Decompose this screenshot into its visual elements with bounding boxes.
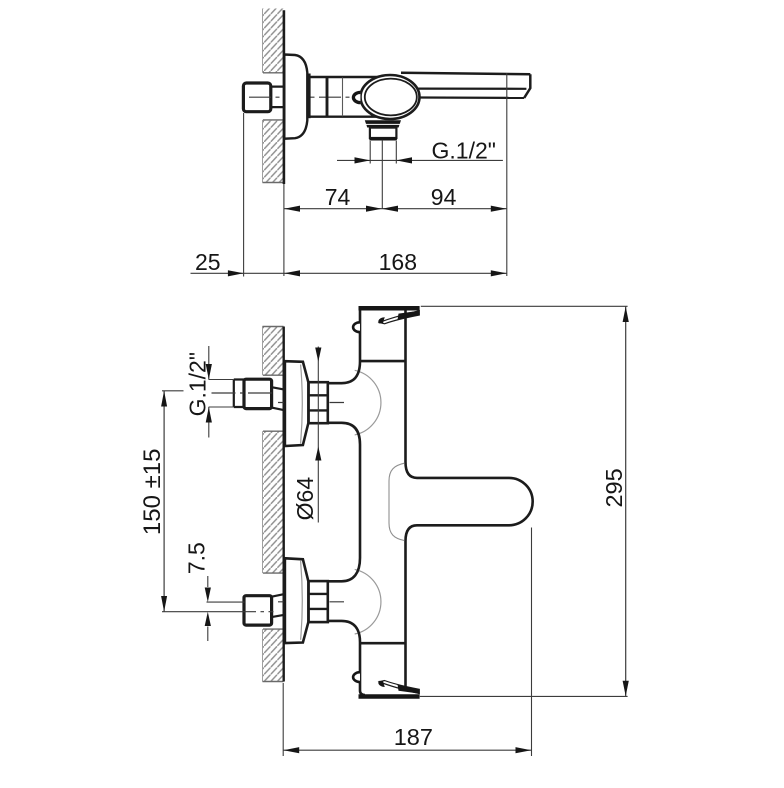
wall hole edges	[263, 73, 284, 183]
spout root contour	[389, 463, 404, 540]
cartridge cap outer oval	[361, 75, 420, 119]
bottom lever bar	[359, 694, 420, 699]
arrow 168 right	[491, 270, 507, 276]
wall left boundary	[262, 9, 264, 183]
body right outline with spout	[406, 310, 533, 689]
bottom hub circle	[355, 569, 381, 634]
svg-text:G.1/2": G.1/2"	[432, 137, 496, 163]
cylinder thin joint	[342, 78, 344, 117]
7.5 upper extension (union centerline)	[207, 601, 245, 603]
cylinder joint ring	[326, 77, 329, 117]
top union centerline	[278, 402, 344, 404]
bottom union nut	[309, 581, 328, 622]
svg-text:7.5: 7.5	[183, 542, 209, 574]
G.1/2 leader line	[337, 159, 503, 161]
top hub circle	[355, 370, 381, 435]
top inlet stub	[234, 380, 244, 408]
295 top extension	[421, 305, 628, 307]
svg-text:168: 168	[379, 249, 417, 275]
arrow at spout end	[491, 206, 507, 212]
187 right extension (spout tip)	[531, 528, 533, 757]
wall hatch segment A	[263, 327, 284, 376]
top inlet eccentric neck	[272, 387, 284, 410]
dimension line 25/168	[191, 272, 507, 274]
body cylinder	[309, 77, 379, 117]
wall hatch lower segment	[263, 120, 284, 183]
G.1/2 arrow left	[355, 157, 371, 163]
thread extension lines	[370, 141, 396, 164]
wall hole edges	[263, 327, 284, 682]
dimension line 74/94	[284, 208, 507, 210]
wall surface extension line down to dims	[283, 184, 285, 276]
spout bottom line	[420, 96, 525, 99]
G.1/2 extension lines	[209, 380, 234, 408]
295 dimension line	[625, 306, 627, 696]
cap joint line bottom	[359, 642, 405, 645]
outlet thread bottom edge	[369, 137, 397, 140]
inlet neck	[271, 87, 284, 108]
Ø64 dimension line	[317, 347, 319, 523]
spout end cap	[524, 74, 530, 98]
svg-text:25: 25	[195, 249, 221, 275]
bowtie arrows at outlet center	[366, 206, 398, 212]
svg-text:295: 295	[601, 468, 627, 507]
horizontal centerline	[249, 96, 361, 98]
187 dimension line	[283, 749, 531, 751]
bottom inlet eccentric neck	[272, 594, 284, 617]
top union nut	[309, 382, 328, 423]
wall left boundary	[262, 327, 264, 682]
295 bottom extension	[420, 695, 628, 697]
body left outline with arms	[328, 310, 365, 695]
bottom escutcheon inner contour	[301, 561, 303, 640]
flange ring	[308, 74, 310, 119]
wall flange (escutcheon, side view)	[284, 55, 307, 139]
cartridge cap inner oval	[365, 79, 417, 116]
bottom union centerline	[278, 601, 344, 603]
side tab button	[353, 92, 360, 102]
bottom side bump	[353, 672, 360, 682]
187 arrows	[284, 747, 300, 753]
svg-text:187: 187	[394, 724, 433, 750]
top inlet centerline	[212, 392, 274, 394]
top inlet nut	[244, 379, 272, 408]
bottom lever blade dark half	[398, 685, 420, 694]
arrow at wall	[284, 206, 300, 212]
outlet collar lower	[366, 125, 399, 128]
187 left extension (wall)	[282, 683, 284, 756]
outlet collar upper	[365, 120, 401, 124]
svg-text:G.1/2": G.1/2"	[185, 352, 211, 416]
spout top line	[401, 73, 530, 75]
nut edge extension line	[243, 113, 245, 277]
inlet nut (behind wall)	[243, 83, 270, 112]
Ø64 arrows	[315, 348, 321, 362]
svg-text:74: 74	[325, 184, 351, 210]
wall hatch upper segment	[263, 9, 284, 73]
top lever dark tip	[378, 317, 384, 323]
150 dimension line	[163, 391, 165, 612]
150 arrows	[161, 391, 167, 407]
150 dimension top extension	[162, 390, 184, 392]
wall hatch segment B	[263, 431, 284, 573]
295 arrows	[623, 307, 629, 322]
top escutcheon inner contour	[301, 365, 303, 444]
svg-text:Ø64: Ø64	[292, 477, 318, 521]
top lever bar	[359, 306, 420, 311]
arrow 25 left	[228, 270, 244, 276]
wall hatch segment C	[263, 629, 284, 681]
svg-text:94: 94	[431, 184, 457, 210]
arrow 25 right / 168 left	[284, 270, 300, 276]
7.5 dimension line with arrows	[207, 576, 209, 641]
bottom inlet nut	[244, 596, 272, 625]
svg-text:150 ±15: 150 ±15	[139, 449, 166, 536]
top lever blade dark half	[398, 311, 420, 320]
top side bump	[353, 322, 360, 332]
wall surface line	[283, 10, 286, 184]
G.1/2 dimension line with arrows	[208, 346, 210, 438]
spout end extension line	[506, 73, 508, 276]
top escutcheon	[285, 361, 309, 446]
top lever blade outline	[380, 311, 420, 324]
wall surface line	[283, 327, 285, 682]
spout mid line	[418, 87, 527, 89]
outlet centerline extension	[381, 140, 383, 209]
bottom lever dark tip	[378, 681, 384, 687]
bottom lever blade outline	[380, 681, 420, 694]
outlet thread	[370, 128, 397, 138]
bottom escutcheon	[285, 558, 309, 643]
cap joint line top	[360, 360, 406, 363]
G.1/2 arrow right	[396, 157, 412, 163]
bottom inlet centerline / 150 extension	[162, 611, 244, 613]
